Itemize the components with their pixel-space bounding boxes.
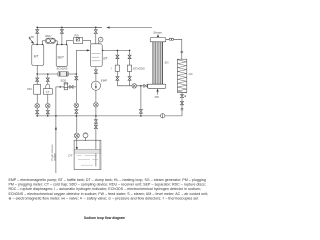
valve on SG-AC line	[169, 38, 173, 40]
dump tank DT	[74, 140, 101, 169]
svg-text:PSI: PSI	[74, 33, 79, 37]
svg-text:EMP: EMP	[101, 79, 107, 83]
node PM-main	[36, 115, 38, 117]
node SG feed branch	[140, 85, 142, 87]
valve before SG	[144, 84, 148, 87]
pressure gauge on BT	[98, 37, 103, 44]
node branch I	[117, 50, 119, 52]
wire EMP line into DT dip tube	[94, 116, 97, 167]
wire riser to tank SEP	[61, 27, 63, 44]
wire tank drain header	[36, 65, 77, 74]
wire main bottom line	[37, 115, 182, 117]
svg-text:SEP: SEP	[57, 55, 64, 59]
svg-text:FW: FW	[155, 95, 160, 99]
node SEP riser top	[61, 44, 63, 46]
wire SG top to air cooler	[166, 38, 182, 40]
flange on AC outlet	[181, 109, 184, 110]
valve on SEP riser	[60, 30, 63, 34]
legend text block	[9, 178, 209, 200]
node branch EChODS	[129, 50, 131, 52]
oxygen detector EChDNS	[58, 72, 69, 77]
wire gas manifold	[36, 26, 102, 28]
flowmeter on SG feed line	[132, 84, 137, 89]
air cooler AC	[177, 59, 187, 93]
svg-text:SG: SG	[164, 60, 169, 64]
svg-text:MT: MT	[34, 55, 40, 59]
steam generator SG	[148, 38, 166, 89]
svg-text:Sodium loop flow diagram: Sodium loop flow diagram	[84, 216, 125, 220]
svg-text:DT: DT	[68, 154, 73, 158]
node manifold-SEP	[61, 27, 63, 29]
valve on BT riser	[94, 30, 97, 34]
valve on MT riser	[36, 30, 39, 34]
level gauge on DT	[83, 133, 88, 141]
svg-text:PM: PM	[27, 87, 32, 91]
wire BT right outlet header	[102, 49, 129, 51]
wire riser to tank MT	[36, 27, 38, 44]
flow device on main line	[161, 114, 165, 118]
label to gas vacuum system	[51, 145, 56, 161]
rupture diaphragm unit RDU	[42, 38, 58, 45]
svg-text:EChODS: EChODS	[133, 66, 145, 70]
node drain-main	[140, 115, 142, 117]
svg-text:RDC – rupture diaphragms; I –: RDC – rupture diaphragms; I – automatic …	[9, 187, 201, 191]
svg-text:EChDNS – electrochemical oxyge: EChDNS – electrochemical oxygen detector…	[9, 192, 209, 196]
svg-text:RDU: RDU	[45, 34, 52, 38]
wire steam outlet line with left arrow	[106, 26, 152, 28]
arrow steam up from SG cap	[157, 34, 159, 38]
node MT riser top	[36, 44, 38, 46]
wire vacuum line with up arrow	[55, 87, 57, 173]
svg-text:system: system	[53, 153, 56, 161]
wire SG feedwater with up arrow	[156, 89, 158, 95]
tank BT	[90, 44, 102, 67]
svg-text:CT: CT	[46, 90, 50, 94]
svg-text:SDD: SDD	[60, 78, 66, 82]
flange on AC inlet	[181, 52, 184, 53]
svg-text:UW: UW	[29, 35, 34, 39]
tank MT	[32, 44, 44, 65]
node CT-main	[47, 115, 49, 117]
wire purification column	[74, 50, 79, 116]
BT level lines	[92, 54, 101, 61]
svg-text:I: I	[111, 66, 112, 70]
svg-text:EMP – electromagnetic pump; BT: EMP – electromagnetic pump; BT – baffle …	[9, 178, 206, 182]
node manifold-MT	[36, 27, 38, 29]
wire DT fill line	[74, 116, 79, 150]
branch hydrogen indicator I	[115, 50, 119, 85]
wire AC downcomer top	[181, 39, 183, 59]
svg-text:EChDNS: EChDNS	[57, 67, 68, 71]
wire riser to tank BT	[95, 27, 97, 44]
wire SG feed line	[117, 85, 147, 87]
device PSI between SEP and BT	[66, 38, 91, 46]
node purification-main	[76, 115, 78, 117]
branch cold trap CT	[43, 74, 52, 116]
wire BT inlet from purification line with right arrow	[76, 49, 90, 51]
arrow UW feed into MT	[29, 38, 34, 44]
electromagnetic pump EMP	[91, 67, 100, 116]
valve M below AC	[180, 95, 186, 98]
branch plugging meter PM	[34, 74, 41, 116]
node BT outlet	[102, 50, 103, 51]
valve on AC outlet	[180, 102, 183, 105]
branch oxygen detector EChODS	[127, 50, 131, 85]
svg-text:AC: AC	[188, 72, 194, 76]
sampling device SDD	[56, 83, 76, 90]
tank SEP	[56, 45, 67, 67]
node EMP-main	[95, 115, 97, 117]
wire drain branch to main line	[139, 86, 142, 116]
wire AC outlet to main line	[181, 92, 183, 116]
svg-text:BT: BT	[103, 57, 108, 61]
svg-text:Steam: Steam	[153, 31, 162, 35]
node manifold-BT	[95, 27, 97, 29]
svg-text:⊗ – electromagnetic flow meter: ⊗ – electromagnetic flow meter; ⋈ – valv…	[9, 196, 199, 200]
svg-text:PM – plugging meter; CT – cold: PM – plugging meter; CT – cold trap; SDD…	[9, 183, 206, 187]
